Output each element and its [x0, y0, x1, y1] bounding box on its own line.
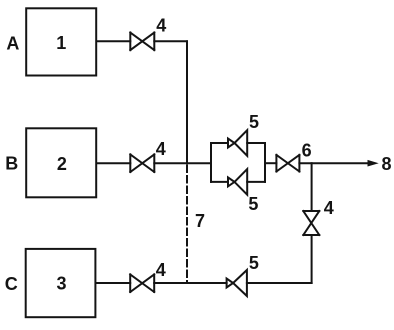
- wire valve V5 to check valve CV3: [154, 282, 226, 284]
- wire valve V3 to output arrow: [299, 162, 370, 164]
- svg-text:B: B: [5, 154, 18, 174]
- wire box3 to valve V5: [97, 282, 131, 284]
- svg-text:7: 7: [195, 211, 205, 231]
- svg-text:2: 2: [57, 154, 67, 174]
- wire vertical from row A down to node at row B: [186, 41, 188, 163]
- svg-text:4: 4: [324, 198, 334, 218]
- wire branch to valve V3: [265, 162, 276, 164]
- wire box1 to valve V1: [97, 40, 130, 42]
- dashed control line 7: [186, 166, 188, 283]
- wire branch left vertical: [210, 143, 212, 182]
- wire junction node down to valve V4: [311, 163, 313, 211]
- svg-text:1: 1: [56, 33, 66, 53]
- valve V1: [130, 33, 154, 51]
- svg-text:8: 8: [382, 154, 392, 174]
- svg-text:5: 5: [248, 194, 258, 214]
- svg-text:4: 4: [156, 260, 166, 280]
- svg-text:5: 5: [249, 253, 259, 273]
- output arrowhead 8: [368, 160, 379, 167]
- check valve CV3: [227, 270, 247, 296]
- wire bottom branch to check valve CV2: [211, 181, 228, 183]
- wire valve V1 to corner: [154, 40, 187, 42]
- wire valve V4 down to bottom line: [311, 235, 313, 283]
- svg-text:C: C: [5, 274, 18, 294]
- wire branch right vertical: [264, 143, 266, 182]
- svg-text:4: 4: [156, 139, 166, 159]
- wire top branch to check valve CV1: [211, 142, 228, 144]
- svg-text:A: A: [6, 34, 19, 54]
- svg-text:5: 5: [249, 112, 259, 132]
- svg-text:3: 3: [57, 273, 67, 293]
- component box 3: [26, 249, 96, 317]
- valve V4 (vertical): [303, 211, 319, 235]
- wire box2 to valve V2: [97, 162, 130, 164]
- svg-text:4: 4: [156, 16, 166, 36]
- wire CV3 to right vertical: [247, 282, 312, 284]
- component box 2: [26, 128, 96, 197]
- check valve CV1: [228, 130, 247, 156]
- valve V3: [276, 155, 299, 172]
- wire CV2 to branch right vertical: [247, 181, 265, 183]
- component box 1: [26, 8, 96, 75]
- valve V2: [130, 154, 154, 172]
- wire valve V2 to branch node: [154, 162, 211, 164]
- check valve CV2: [228, 169, 247, 195]
- valve V5: [130, 274, 154, 292]
- wire CV1 to branch right vertical: [247, 142, 265, 144]
- svg-text:6: 6: [302, 140, 312, 160]
